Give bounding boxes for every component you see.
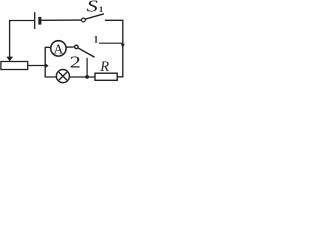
svg-text:2: 2 <box>70 53 81 72</box>
svg-text:A: A <box>54 41 64 56</box>
svg-text:S: S <box>87 0 98 16</box>
svg-text:1: 1 <box>99 5 103 14</box>
svg-text:R: R <box>99 59 109 75</box>
svg-text:1: 1 <box>94 36 99 46</box>
